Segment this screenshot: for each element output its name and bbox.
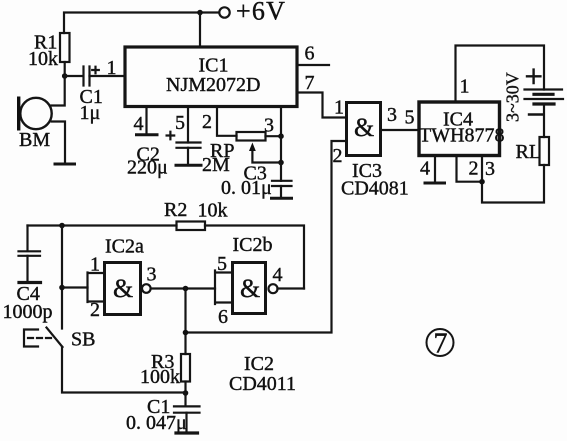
svg-text:IC2a: IC2a (105, 236, 144, 258)
resistor RL (540, 137, 550, 165)
terminal +6V (219, 7, 229, 17)
svg-text:1000p: 1000p (3, 301, 53, 323)
wire IC2a out (151, 287, 215, 289)
capacitor C3 0.01u (272, 181, 292, 186)
svg-text:1: 1 (90, 254, 100, 276)
wire IC4 pin 1 to battery + (456, 46, 545, 103)
nand-gate IC2a (105, 263, 141, 315)
svg-text:1: 1 (460, 76, 470, 98)
svg-text:BM: BM (19, 129, 50, 151)
ground C4 (19, 281, 41, 284)
battery 3~30V (525, 88, 563, 90)
label battery + (527, 70, 540, 83)
svg-text:R2: R2 (164, 199, 187, 221)
capacitor C1 0.047u (174, 406, 200, 412)
node RP/pin3 (278, 133, 284, 139)
svg-text:5: 5 (405, 107, 415, 129)
wire node to C3 (280, 163, 282, 181)
svg-text:3: 3 (485, 158, 495, 180)
wire RP wiper arrow (252, 147, 281, 163)
wire oscillator top rail (28, 224, 177, 226)
svg-text:2: 2 (90, 299, 100, 321)
svg-text:0. 01μ: 0. 01μ (221, 177, 272, 199)
svg-text:IC2: IC2 (244, 353, 274, 375)
wire IC4 pin 3 (481, 156, 483, 182)
node feedback junction (183, 286, 189, 292)
wire feedback down (184, 289, 186, 355)
wire IC3 pin 2 from oscillator (186, 141, 347, 333)
wire battery to RL (543, 104, 545, 137)
wire IC1 pin 7 to IC3 pin 1 (297, 93, 347, 118)
svg-text:4: 4 (134, 113, 144, 135)
wire top +6V rail (64, 13, 219, 34)
svg-text:220μ: 220μ (127, 157, 168, 179)
ground IC4 pin 4 (425, 182, 445, 185)
node rail/left vertical (59, 223, 65, 229)
node IC2a input tap (59, 285, 65, 291)
svg-text:+6V: +6V (236, 0, 286, 26)
wire RP right to node (266, 135, 282, 137)
node pins 2-3 / RL (479, 179, 485, 185)
svg-text:CD4011: CD4011 (229, 373, 296, 395)
svg-text:1: 1 (107, 57, 117, 79)
wire IC1 pin 2 (217, 108, 237, 136)
svg-text:3: 3 (264, 115, 274, 137)
svg-text:4: 4 (420, 158, 430, 180)
wire IC1 pin 3 down (280, 108, 282, 136)
wire IC4 pin 4 (434, 156, 436, 182)
svg-text:&: & (354, 113, 374, 142)
ground BM (55, 163, 75, 166)
wire RL bottom loop (482, 165, 544, 203)
wire junction to IC1 top (199, 13, 201, 47)
wire IC3 out to IC4 (381, 129, 420, 131)
svg-text:3: 3 (147, 264, 157, 286)
nand-gate IC2b (233, 263, 266, 314)
svg-text:RL: RL (516, 141, 542, 163)
wire IC2b out (278, 287, 305, 289)
svg-text:2M: 2M (202, 154, 230, 176)
wire BM top lead (52, 76, 65, 106)
wire node down (280, 136, 282, 162)
svg-text:SB: SB (71, 329, 95, 351)
wire IC1 pin 6 stub (297, 64, 329, 66)
capacitor C2 220u (177, 143, 201, 148)
ground C3 (272, 197, 292, 200)
wire to IC2a inputs (62, 286, 88, 288)
svg-text:3~30V: 3~30V (503, 72, 523, 122)
wire junction to C1 bottom (184, 393, 186, 406)
microphone BM (20, 98, 51, 129)
svg-text:6: 6 (218, 306, 228, 328)
IC4 TWH8778 (419, 102, 500, 156)
svg-text:5: 5 (175, 112, 185, 134)
svg-text:6: 6 (305, 43, 315, 65)
svg-text:100k: 100k (140, 366, 180, 388)
wire IC4 pin 2 (457, 156, 483, 182)
capacitor C4 1000p (26, 226, 28, 252)
and-gate IC3 CD4081 (347, 103, 381, 156)
svg-text:0. 047μ: 0. 047μ (126, 412, 187, 434)
svg-text:5: 5 (217, 253, 227, 275)
svg-text:4: 4 (273, 264, 283, 286)
svg-text:2: 2 (333, 145, 343, 167)
svg-text:2: 2 (202, 111, 212, 133)
wire IC2a input bracket (88, 273, 105, 303)
resistor R3 100k (181, 354, 190, 382)
switch SB (47, 328, 63, 348)
wire junction to C1 (65, 75, 83, 77)
svg-text:7: 7 (434, 329, 448, 360)
wire IC1 pin 4 (145, 108, 147, 133)
resistor R1 (60, 33, 70, 62)
svg-text:TWH8778: TWH8778 (419, 125, 505, 147)
svg-text:&: & (113, 274, 133, 303)
node wiper/C3 (278, 160, 284, 166)
resistor R2 10k (177, 222, 206, 231)
capacitor C1 1u (84, 67, 90, 86)
wire IC2b input bracket (215, 271, 233, 305)
svg-text:10k: 10k (198, 200, 228, 222)
svg-text:7: 7 (305, 72, 315, 94)
svg-text:3: 3 (387, 104, 397, 126)
svg-text:10k: 10k (28, 48, 58, 70)
wire C1 to IC1 pin1 (90, 75, 124, 77)
svg-text:IC2b: IC2b (233, 234, 273, 256)
node R1/C1/BM junction (62, 73, 68, 79)
wire R3 bottom (184, 382, 186, 394)
node R3 top junction (183, 330, 189, 336)
wire junction left to SB (62, 347, 186, 393)
node top-rail junction (197, 10, 203, 16)
wire left vertical to IC2a input (61, 226, 63, 329)
ground C1 (176, 431, 198, 434)
svg-text:2: 2 (469, 158, 479, 180)
op-amp IC1 NJM2072D (125, 47, 297, 107)
svg-text:1: 1 (334, 97, 344, 119)
wire BM bottom lead (52, 122, 65, 164)
svg-text:NJM2072D: NJM2072D (166, 74, 260, 96)
wire R1 bottom (64, 62, 66, 76)
svg-text:CD4081: CD4081 (341, 178, 409, 200)
label circled 7 (427, 329, 454, 356)
svg-text:1μ: 1μ (80, 102, 101, 124)
ground C2 (176, 164, 201, 167)
svg-text:&: & (240, 274, 260, 303)
node R3/C1/SB junction (183, 390, 189, 396)
wire R2 right to IC2b out (205, 226, 304, 289)
wire IC1 pin 5 (187, 108, 189, 143)
label battery - (529, 113, 543, 115)
ground IC1 pin4 (137, 133, 158, 136)
potentiometer RP 2M (237, 132, 266, 141)
